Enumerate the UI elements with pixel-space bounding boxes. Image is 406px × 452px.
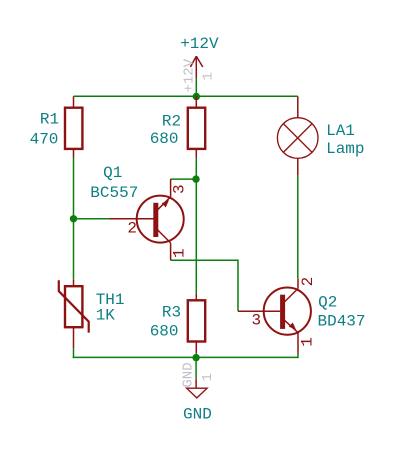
label Q2 [318, 294, 337, 312]
value Lamp [326, 140, 364, 158]
wire GND stub [195, 357, 197, 379]
pin number 2 (Q2) [299, 277, 317, 287]
resistor R3 [188, 294, 205, 358]
svg-text:GND: GND [180, 362, 196, 387]
svg-text:GND: GND [183, 405, 212, 423]
svg-text:BC557: BC557 [90, 184, 138, 202]
svg-text:2: 2 [299, 277, 317, 287]
wire left column [73, 158, 75, 280]
value BC557 [90, 184, 138, 202]
ghost pin name +12V [182, 58, 198, 92]
junction node A (R1/TH1/Q1 base) [70, 215, 77, 222]
resistor R2 [188, 96, 205, 157]
label R1 [40, 110, 59, 128]
svg-text:3: 3 [252, 312, 262, 330]
net label +12V [180, 35, 219, 53]
junction node B (R2/Q1 collector) [192, 175, 199, 182]
svg-text:+12V: +12V [180, 35, 219, 53]
wire Q2 emitter to rail [297, 354, 299, 359]
svg-text:1K: 1K [96, 307, 116, 325]
pin number 1 (Q1) [171, 248, 189, 258]
svg-text:3: 3 [170, 184, 188, 194]
junction top node [193, 93, 200, 100]
svg-text:470: 470 [30, 130, 59, 148]
value 680 [150, 323, 179, 341]
resistor R1 [65, 96, 82, 157]
svg-text:1: 1 [201, 72, 217, 80]
pin number 2 (Q1) [127, 220, 137, 238]
svg-text:R3: R3 [162, 304, 181, 322]
svg-text:2: 2 [127, 220, 137, 238]
svg-text:680: 680 [150, 323, 179, 341]
wire left to bottom rail [73, 348, 75, 358]
wire top rail [74, 95, 298, 97]
wire from +12V to top rail [195, 78, 197, 96]
ghost pin number 1 [201, 72, 217, 80]
wire middle column [195, 158, 197, 294]
label R2 [162, 112, 181, 130]
label LA1 [326, 122, 355, 140]
svg-text:680: 680 [150, 130, 179, 148]
junction node GND rail [192, 354, 199, 361]
wire bottom rail [73, 356, 298, 358]
pin number 3 (Q1) [170, 184, 188, 194]
value 1K [96, 307, 116, 325]
svg-text:Q2: Q2 [318, 294, 337, 312]
svg-text:Q1: Q1 [103, 164, 122, 182]
svg-text:R2: R2 [162, 112, 181, 130]
transistor Q1 [110, 179, 184, 260]
value 680 [150, 130, 179, 148]
svg-text:1: 1 [299, 337, 317, 347]
wire right column (lamp to Q2 collector) [297, 175, 299, 278]
label Q1 [103, 164, 122, 182]
value 470 [30, 130, 59, 148]
net label GND [183, 405, 212, 423]
value BD437 [318, 313, 366, 331]
svg-text:BD437: BD437 [318, 313, 366, 331]
wire Q1 emitter to Q2 base [171, 260, 238, 311]
ghost pin name GND [180, 362, 196, 387]
svg-text:+12V: +12V [182, 58, 198, 92]
wire Q1 collector link [171, 178, 196, 180]
ground symbol [187, 379, 208, 398]
svg-text:Lamp: Lamp [326, 140, 364, 158]
wire Q1 base [74, 218, 110, 220]
svg-text:1: 1 [200, 373, 216, 381]
ghost pin number 1 (GND) [200, 373, 216, 381]
label R3 [162, 304, 181, 322]
transistor Q2 [238, 278, 311, 353]
svg-text:R1: R1 [40, 110, 59, 128]
power symbol +12V [190, 56, 202, 78]
lamp LA1 [277, 96, 318, 175]
pin number 3 (Q2) [252, 312, 262, 330]
label TH1 [96, 291, 125, 309]
thermistor TH1 [59, 280, 89, 349]
svg-text:1: 1 [171, 248, 189, 258]
svg-text:LA1: LA1 [326, 122, 355, 140]
pin number 1 (Q2) [299, 337, 317, 347]
